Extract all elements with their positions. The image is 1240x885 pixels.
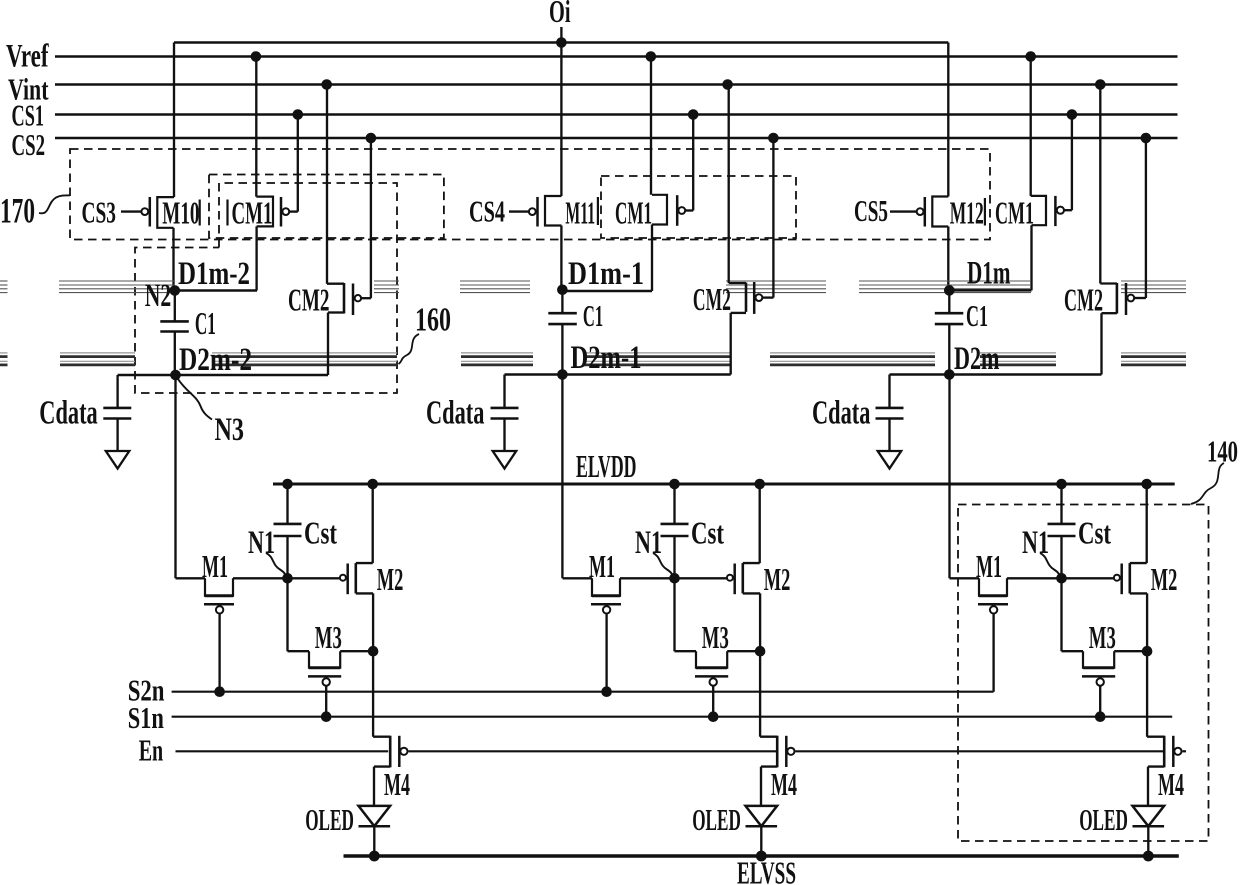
power rail ELVSS label bbox=[737, 855, 796, 885]
wire N1 net right pixel bbox=[1007, 577, 1113, 579]
svg-text:N2: N2 bbox=[145, 278, 172, 314]
transistor CM1 middle current mirror input bbox=[615, 57, 693, 292]
node S1n junction middle pixel bbox=[708, 711, 719, 722]
svg-text:160: 160 bbox=[415, 302, 451, 339]
wire data line D1m segment bbox=[949, 289, 1031, 292]
node Oi label bbox=[549, 0, 571, 29]
svg-text:C1: C1 bbox=[583, 298, 603, 333]
svg-text:ELVDD: ELVDD bbox=[576, 448, 637, 484]
label 160 with leader bbox=[399, 302, 452, 365]
net Vref label bbox=[6, 39, 49, 75]
wire M2 drain to M4 middle pixel bbox=[759, 651, 761, 737]
data line bus break marks lower bbox=[0, 353, 1186, 365]
wire ELVSS rail bbox=[344, 854, 1179, 858]
node S1n junction right pixel bbox=[1095, 711, 1106, 722]
svg-text:CM2: CM2 bbox=[693, 281, 731, 317]
wire column feed left N3 to M1 bbox=[174, 375, 176, 578]
node D2m junction bbox=[944, 369, 955, 380]
transistor M2 drive left pixel bbox=[340, 484, 404, 651]
wire N1 net middle pixel bbox=[620, 577, 726, 579]
emission line En label bbox=[139, 732, 164, 767]
ground symbol left bbox=[106, 451, 130, 469]
svg-text:M11: M11 bbox=[565, 194, 595, 230]
svg-text:CM1: CM1 bbox=[995, 194, 1034, 230]
label 140 with leader bbox=[1191, 434, 1238, 505]
svg-text:CS2: CS2 bbox=[12, 127, 46, 162]
transistor M3 right pixel bbox=[1062, 578, 1148, 716]
node N1 junction left pixel bbox=[282, 573, 293, 584]
wire CS2 line bbox=[55, 137, 1178, 139]
control signal CS3 label bbox=[82, 194, 117, 229]
node CS1 junction middle bbox=[688, 109, 699, 120]
svg-text:M3: M3 bbox=[1089, 619, 1116, 655]
transistor CM2 middle current mirror output bbox=[693, 85, 774, 375]
transistor CM1 right current mirror input bbox=[995, 57, 1072, 291]
node M2 M3 junction right pixel bbox=[1142, 646, 1153, 657]
node CS1 junction left bbox=[293, 109, 304, 120]
transistor M3 middle pixel bbox=[675, 578, 761, 716]
data line D1m label bbox=[967, 256, 1011, 292]
svg-text:M2: M2 bbox=[1151, 561, 1178, 597]
svg-text:M4: M4 bbox=[384, 766, 410, 802]
node N3 label with leader bbox=[177, 378, 244, 449]
svg-text:D2m-1: D2m-1 bbox=[571, 340, 642, 376]
dashed box around CM1 CM2 left column outer bbox=[209, 175, 444, 239]
svg-text:Oi: Oi bbox=[549, 0, 571, 29]
wire En line segments bbox=[176, 750, 1187, 752]
node N1 label with leader right pixel bbox=[1022, 525, 1061, 577]
svg-text:M2: M2 bbox=[377, 561, 404, 597]
svg-text:CM1: CM1 bbox=[232, 194, 273, 230]
wire data line D2m-2 segment bbox=[118, 374, 328, 376]
svg-text:En: En bbox=[139, 732, 164, 767]
node N2 junction bbox=[170, 285, 181, 296]
svg-text:C1: C1 bbox=[195, 305, 216, 341]
node M2 M3 junction left pixel bbox=[368, 646, 379, 657]
svg-text:170: 170 bbox=[0, 191, 35, 231]
svg-text:M3: M3 bbox=[702, 619, 729, 655]
svg-text:M10: M10 bbox=[162, 194, 199, 230]
wire data line D2m segment bbox=[890, 373, 1102, 375]
svg-text:D2m-2: D2m-2 bbox=[179, 342, 252, 378]
transistor M4 emission left pixel bbox=[373, 736, 410, 806]
wire ELVDD rail bbox=[273, 483, 1175, 486]
diode OLED middle pixel bbox=[692, 802, 777, 856]
wire M2 drain to M4 right pixel bbox=[1146, 651, 1148, 737]
wire Vint line bbox=[55, 83, 1178, 85]
scan line S1n label bbox=[128, 700, 164, 735]
svg-text:N1: N1 bbox=[635, 525, 662, 561]
node D1m junction bbox=[944, 285, 955, 296]
wire S1n line bbox=[172, 716, 1173, 718]
capacitor Cdata middle bbox=[426, 375, 519, 452]
node Vref junction left bbox=[251, 51, 262, 62]
svg-text:OLED: OLED bbox=[1079, 802, 1128, 837]
node N1 label with leader left pixel bbox=[248, 525, 287, 577]
node S2n junction middle M1 bbox=[601, 686, 612, 697]
node Vref junction middle bbox=[646, 51, 657, 62]
node ELVSS junction right pixel bbox=[1143, 851, 1154, 862]
capacitor Cst left pixel bbox=[274, 484, 338, 578]
svg-text:M3: M3 bbox=[315, 619, 342, 655]
node CS1 junction right bbox=[1067, 109, 1078, 120]
node S2n junction left M1 bbox=[214, 686, 225, 697]
data line D1m-2 label bbox=[178, 256, 250, 292]
wire N1 net left pixel bbox=[233, 577, 339, 579]
node D2m-1 junction bbox=[557, 369, 568, 380]
svg-text:M2: M2 bbox=[764, 561, 791, 597]
capacitor C1 right bbox=[935, 290, 988, 374]
dashed box 140 pixel circuit bbox=[958, 505, 1209, 842]
data line D2m-2 label bbox=[179, 342, 252, 378]
node ELVDD junction M2 middle pixel bbox=[754, 479, 765, 490]
node ELVDD junction M2 left pixel bbox=[367, 479, 378, 490]
wire M2 drain to M4 left pixel bbox=[372, 651, 374, 737]
transistor CM1 left current mirror input bbox=[228, 57, 298, 291]
wire data line D1m-2 segment bbox=[175, 289, 257, 292]
svg-text:M12: M12 bbox=[950, 194, 984, 230]
node N1 label with leader middle pixel bbox=[635, 525, 674, 577]
node ELVSS junction middle pixel bbox=[756, 851, 767, 862]
node Vint junction right bbox=[1095, 79, 1106, 90]
scan line S2n label bbox=[128, 672, 165, 707]
svg-text:M4: M4 bbox=[771, 766, 797, 802]
dashed box 160 current mirror left column stepped bbox=[135, 183, 397, 393]
node CS2 junction right bbox=[1141, 133, 1152, 144]
diode OLED right pixel bbox=[1079, 802, 1164, 856]
svg-text:N1: N1 bbox=[1022, 525, 1049, 561]
svg-text:Cst: Cst bbox=[304, 515, 337, 551]
node ELVSS junction left pixel bbox=[369, 851, 380, 862]
transistor M11 switch bbox=[509, 194, 598, 289]
wire CS1 line bbox=[55, 113, 1178, 115]
wire S2n line bbox=[172, 691, 994, 693]
node Vref junction right bbox=[1025, 51, 1036, 62]
svg-text:CM2: CM2 bbox=[288, 281, 330, 317]
label 170 with leader bbox=[0, 191, 70, 231]
node S1n junction left pixel bbox=[321, 711, 332, 722]
wire column feed right D2m to M1 bbox=[948, 375, 950, 579]
capacitor Cst right pixel bbox=[1048, 484, 1112, 578]
transistor M1 right pixel bbox=[950, 548, 1009, 692]
wire Vref line bbox=[55, 55, 1178, 57]
power rail ELVDD label bbox=[576, 448, 637, 484]
svg-text:Cdata: Cdata bbox=[39, 394, 97, 431]
node CS2 junction middle bbox=[768, 133, 779, 144]
svg-text:Cst: Cst bbox=[1078, 515, 1111, 551]
node ELVDD junction Cst left pixel bbox=[282, 479, 293, 490]
transistor M2 drive middle pixel bbox=[727, 484, 790, 651]
transistor M2 drive right pixel bbox=[1114, 484, 1178, 651]
capacitor Cst middle pixel bbox=[661, 484, 725, 578]
svg-text:CS3: CS3 bbox=[82, 194, 117, 229]
svg-text:OLED: OLED bbox=[305, 802, 354, 837]
svg-text:CM2: CM2 bbox=[1064, 282, 1103, 318]
transistor M3 left pixel bbox=[288, 578, 374, 716]
ground symbol middle bbox=[493, 451, 517, 469]
wire data line D1m-1 segment bbox=[562, 290, 652, 293]
svg-text:N1: N1 bbox=[248, 525, 275, 561]
transistor M1 left pixel bbox=[176, 548, 235, 692]
transistor CM2 right current mirror output bbox=[1064, 85, 1146, 375]
wire data line D2m-1 segment bbox=[505, 373, 731, 375]
svg-text:D1m: D1m bbox=[967, 256, 1011, 292]
svg-text:D1m-1: D1m-1 bbox=[568, 256, 644, 292]
data line D2m-1 label bbox=[571, 340, 642, 376]
capacitor C1 middle bbox=[548, 290, 603, 375]
svg-text:CM1: CM1 bbox=[615, 194, 652, 230]
svg-text:S1n: S1n bbox=[128, 700, 164, 735]
svg-text:Cst: Cst bbox=[691, 515, 724, 551]
node CS2 junction left bbox=[366, 133, 377, 144]
node N1 junction middle pixel bbox=[669, 573, 680, 584]
capacitor C1 left bbox=[160, 291, 216, 376]
svg-text:C1: C1 bbox=[966, 298, 988, 333]
transistor M10 switch bbox=[121, 43, 200, 291]
wire Oi vertical drop bbox=[560, 27, 562, 196]
node N1 junction right pixel bbox=[1056, 573, 1067, 584]
svg-text:Vref: Vref bbox=[6, 39, 49, 75]
control signal CS5 label bbox=[854, 193, 888, 228]
node ELVDD junction Cst right pixel bbox=[1056, 479, 1067, 490]
node M2 M3 junction middle pixel bbox=[755, 646, 766, 657]
svg-text:OLED: OLED bbox=[692, 802, 741, 837]
capacitor Cdata right bbox=[812, 375, 904, 452]
node ELVDD junction Cst middle pixel bbox=[669, 479, 680, 490]
node Oi junction on top rail bbox=[556, 37, 567, 48]
svg-text:Cdata: Cdata bbox=[426, 394, 484, 431]
node D1m-1 junction bbox=[557, 285, 568, 296]
svg-text:M4: M4 bbox=[1158, 766, 1184, 802]
transistor M1 middle pixel bbox=[563, 548, 622, 692]
node N2 label bbox=[145, 278, 172, 314]
svg-text:ELVSS: ELVSS bbox=[737, 855, 796, 885]
diode OLED left pixel bbox=[305, 802, 390, 856]
transistor CM2 left current mirror output bbox=[288, 85, 371, 376]
ground symbol right bbox=[878, 451, 902, 469]
transistor M12 switch bbox=[890, 43, 985, 291]
svg-text:CS5: CS5 bbox=[854, 193, 888, 228]
node Vint junction middle bbox=[722, 79, 733, 90]
node ELVDD junction M2 right pixel bbox=[1141, 479, 1152, 490]
wire top rail connecting M10 M11 M12 bbox=[174, 41, 948, 43]
net CS2 label bbox=[12, 127, 46, 162]
svg-text:Cdata: Cdata bbox=[812, 394, 870, 431]
node Vint junction left bbox=[321, 79, 332, 90]
svg-text:D2m: D2m bbox=[954, 341, 1000, 377]
data line D2m label bbox=[954, 341, 1000, 377]
wire column feed middle D2m-1 to M1 bbox=[561, 375, 563, 579]
svg-text:N3: N3 bbox=[215, 412, 245, 448]
data line bus break marks upper bbox=[0, 281, 1186, 293]
transistor M4 emission right pixel bbox=[1147, 736, 1184, 806]
svg-text:D1m-2: D1m-2 bbox=[178, 256, 250, 292]
node N3 junction bbox=[170, 370, 181, 381]
data line D1m-1 label bbox=[568, 256, 644, 292]
control signal CS4 label bbox=[469, 194, 505, 229]
transistor M4 emission middle pixel bbox=[760, 736, 797, 806]
net CS1 label bbox=[12, 97, 45, 132]
dashed box around CM1 CM2 middle column bbox=[601, 176, 796, 238]
capacitor Cdata left bbox=[39, 375, 131, 451]
svg-text:CS4: CS4 bbox=[469, 194, 505, 229]
dashed box 170 data driver block bbox=[70, 149, 990, 240]
net Vint label bbox=[8, 72, 49, 107]
